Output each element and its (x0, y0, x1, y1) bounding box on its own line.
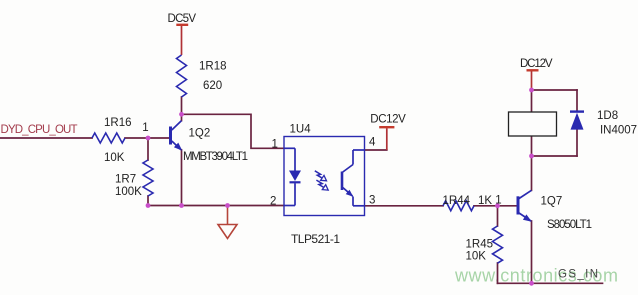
svg-text:IN4007: IN4007 (600, 125, 637, 137)
svg-text:1R45: 1R45 (466, 239, 494, 251)
svg-text:10K: 10K (466, 251, 487, 263)
svg-text:1U4: 1U4 (290, 124, 312, 136)
svg-text:DC12V: DC12V (520, 58, 553, 70)
svg-text:1: 1 (142, 122, 148, 134)
svg-text:1: 1 (495, 195, 501, 207)
svg-text:1D8: 1D8 (597, 110, 618, 122)
svg-text:DYD_CPU_OUT: DYD_CPU_OUT (1, 124, 78, 136)
svg-text:TLP521-1: TLP521-1 (291, 232, 340, 246)
svg-text:1R16: 1R16 (104, 117, 132, 129)
svg-text:4: 4 (369, 137, 376, 149)
svg-text:DC12V: DC12V (370, 114, 406, 126)
svg-text:3: 3 (369, 194, 375, 206)
svg-text:1: 1 (272, 139, 278, 151)
svg-text:1R18: 1R18 (199, 61, 227, 73)
svg-text:100K: 100K (115, 186, 142, 198)
svg-text:S8050LT1: S8050LT1 (547, 219, 592, 231)
svg-text:2: 2 (270, 196, 276, 208)
svg-text:DC5V: DC5V (168, 13, 197, 25)
svg-text:1R44: 1R44 (443, 195, 471, 207)
svg-text:1R7: 1R7 (115, 174, 136, 186)
svg-text:620: 620 (203, 80, 222, 92)
svg-text:MMBT3904LT1: MMBT3904LT1 (183, 151, 248, 163)
svg-text:1Q7: 1Q7 (541, 196, 563, 208)
svg-text:1K: 1K (478, 195, 492, 207)
svg-text:1Q2: 1Q2 (189, 128, 211, 140)
svg-text:10K: 10K (104, 152, 125, 164)
svg-text:GS_IN: GS_IN (558, 269, 598, 281)
